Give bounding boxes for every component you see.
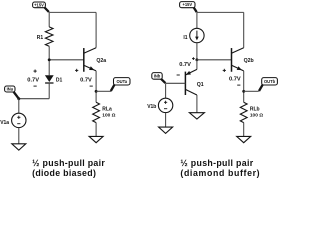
- svg-text:Q2a: Q2a: [96, 58, 106, 64]
- svg-text:(diamond buffer): (diamond buffer): [180, 168, 260, 178]
- svg-text:V1b: V1b: [147, 104, 156, 110]
- svg-text:INb: INb: [154, 73, 161, 78]
- svg-text:I1: I1: [183, 35, 187, 41]
- svg-text:100 Ω: 100 Ω: [102, 113, 115, 119]
- svg-text:½ push-pull pair: ½ push-pull pair: [32, 158, 105, 168]
- svg-text:Q2b: Q2b: [244, 58, 254, 64]
- svg-text:0.7V: 0.7V: [27, 77, 39, 83]
- svg-text:RLa: RLa: [102, 106, 112, 112]
- svg-text:OUTa: OUTa: [116, 79, 127, 84]
- svg-text:OUTb: OUTb: [264, 79, 276, 84]
- svg-text:0.7V: 0.7V: [229, 77, 241, 83]
- svg-text:100 Ω: 100 Ω: [250, 113, 263, 119]
- svg-text:+15V: +15V: [182, 2, 192, 7]
- svg-text:D1: D1: [56, 78, 63, 84]
- svg-text:V1a: V1a: [0, 120, 9, 126]
- svg-text:0.7V: 0.7V: [179, 62, 191, 68]
- svg-text:½ push-pull pair: ½ push-pull pair: [180, 158, 253, 168]
- svg-text:INa: INa: [7, 87, 14, 92]
- svg-text:(diode biased): (diode biased): [32, 168, 96, 178]
- svg-text:Q1: Q1: [197, 82, 204, 88]
- svg-text:+15V: +15V: [34, 2, 44, 7]
- svg-text:R1: R1: [37, 35, 44, 41]
- svg-text:RLb: RLb: [250, 106, 260, 112]
- svg-text:0.7V: 0.7V: [80, 77, 92, 83]
